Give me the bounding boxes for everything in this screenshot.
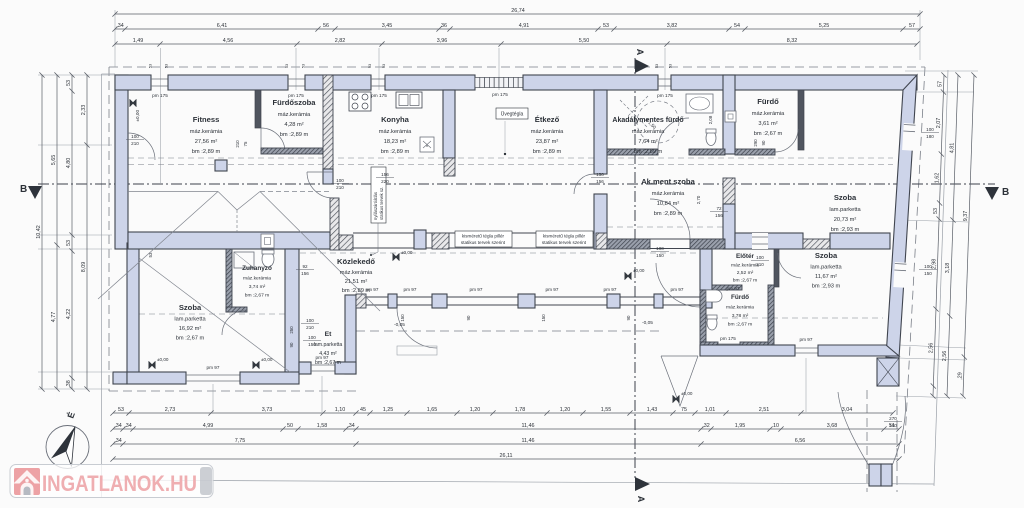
room label Étkező — [531, 115, 564, 155]
svg-text:250: 250 — [289, 326, 294, 334]
Zuhanyzo west wall — [226, 249, 232, 312]
svg-text:pm 97: pm 97 — [365, 287, 378, 292]
svg-text:1,20: 1,20 — [470, 407, 481, 413]
svg-text:75: 75 — [681, 407, 687, 413]
north arrow compass — [46, 411, 89, 469]
door arc corridor/Eloter — [656, 263, 700, 307]
room label Fitness — [190, 115, 223, 155]
svg-text:1,78: 1,78 — [515, 407, 526, 413]
svg-text:máz.kerámia: máz.kerámia — [278, 112, 311, 118]
svg-text:2,82: 2,82 — [335, 38, 346, 44]
svg-text:220: 220 — [381, 179, 389, 184]
window pm175 #3 sill — [371, 79, 385, 86]
svg-text:16,92 m²: 16,92 m² — [179, 326, 202, 332]
hatched pillar Eloter — [803, 239, 830, 249]
svg-text:2,33: 2,33 — [81, 105, 87, 116]
uvegtegla leader — [504, 121, 506, 152]
kitchen west hatched pillar — [323, 75, 333, 169]
bottom dim row 1 — [110, 407, 895, 415]
boiler box on wall — [261, 234, 274, 248]
grab bar dashes — [620, 96, 648, 128]
sink — [396, 92, 422, 108]
svg-text:53: 53 — [655, 64, 659, 68]
svg-text:bm :2,89 m: bm :2,89 m — [192, 149, 221, 155]
west exterior wall — [115, 75, 128, 249]
svg-text:4,77: 4,77 — [51, 312, 57, 323]
svg-text:2,51: 2,51 — [759, 407, 770, 413]
svg-text:A: A — [635, 49, 645, 56]
svg-text:1,58: 1,58 — [317, 423, 328, 429]
svg-text:100: 100 — [306, 318, 314, 323]
Furdo washbasin — [706, 290, 722, 302]
svg-text:±0,00: ±0,00 — [401, 250, 413, 255]
west wall lower (Szoba) — [127, 243, 139, 382]
right dim chain outer — [958, 72, 977, 398]
right dim chain inner — [929, 72, 947, 398]
svg-text:11,67 m²: 11,67 m² — [815, 274, 837, 280]
window gap — [752, 233, 768, 249]
svg-text:4,22: 4,22 — [66, 309, 72, 320]
watermark INGATLANOK.HU — [10, 465, 213, 498]
room label Előtér — [731, 253, 759, 284]
svg-text:1,95: 1,95 — [735, 423, 746, 429]
svg-text:2,52 m²: 2,52 m² — [737, 270, 754, 276]
svg-text:3,96: 3,96 — [437, 38, 448, 44]
svg-text:Szoba: Szoba — [179, 303, 202, 312]
north wall segment 4 — [385, 75, 475, 90]
witness lines — [38, 10, 978, 412]
svg-text:bm :2,89 m: bm :2,89 m — [381, 149, 410, 155]
interior dashed lintel lines — [128, 158, 893, 318]
svg-text:53: 53 — [148, 252, 153, 257]
svg-text:bm :2,89 m: bm :2,89 m — [654, 211, 683, 217]
uvegtegla box — [496, 108, 528, 119]
svg-text:Étkező: Étkező — [535, 115, 560, 124]
svg-text:45: 45 — [360, 407, 366, 413]
svg-text:pm 97: pm 97 — [403, 287, 416, 292]
Szoba BL east wall — [285, 249, 299, 374]
svg-text:53: 53 — [669, 64, 673, 68]
svg-text:53: 53 — [285, 64, 289, 68]
svg-text:-0,05: -0,05 — [642, 320, 653, 326]
svg-text:23,87 m²: 23,87 m² — [536, 139, 559, 145]
svg-text:x: x — [426, 143, 428, 148]
corridor band lines e — [607, 239, 725, 249]
svg-text:5,65: 5,65 — [51, 155, 57, 166]
svg-text:150: 150 — [541, 314, 546, 322]
svg-text:1,25: 1,25 — [383, 407, 394, 413]
gate posts — [869, 464, 881, 486]
svg-text:53: 53 — [603, 23, 609, 29]
svg-text:máz.kerámia: máz.kerámia — [726, 305, 754, 311]
svg-text:210: 210 — [756, 262, 764, 267]
svg-text:máz.kerámia: máz.kerámia — [531, 129, 564, 135]
svg-text:10,42: 10,42 — [36, 225, 42, 239]
SW corner pilaster — [113, 372, 127, 384]
svg-text:1,49: 1,49 — [133, 38, 144, 44]
svg-text:3,45: 3,45 — [382, 23, 393, 29]
site boundary lines — [102, 70, 949, 497]
svg-text:50: 50 — [287, 423, 293, 429]
svg-text:4,28 m²: 4,28 m² — [284, 122, 303, 128]
svg-text:4,99: 4,99 — [203, 423, 214, 429]
Zuhanyzo shower tray — [234, 252, 254, 268]
Et south wall e — [335, 362, 356, 374]
left dim chain 3 — [66, 72, 75, 391]
svg-text:máz.kerámia: máz.kerámia — [243, 276, 271, 282]
room label Zuhanyzó — [242, 265, 272, 299]
svg-text:150: 150 — [308, 342, 316, 347]
svg-text:Akadálymentes fürdő: Akadálymentes fürdő — [612, 117, 683, 124]
svg-text:pm 97: pm 97 — [603, 287, 616, 292]
svg-text:bm :2,67 m: bm :2,67 m — [728, 322, 752, 328]
svg-text:2,70: 2,70 — [696, 195, 701, 204]
svg-text:,34: ,34 — [114, 423, 122, 429]
east wall window #2 — [893, 262, 906, 288]
hatched on pillar — [596, 233, 607, 249]
svg-text:90: 90 — [626, 315, 631, 320]
left dim chain outer — [36, 72, 45, 391]
svg-text:Szoba: Szoba — [834, 193, 857, 202]
svg-text:B: B — [1002, 187, 1009, 198]
window pm175 #1 sill — [151, 79, 168, 86]
svg-text:pm 175: pm 175 — [371, 93, 387, 98]
RB south wall — [700, 345, 795, 356]
svg-text:Fürdőszoba: Fürdőszoba — [272, 98, 316, 107]
svg-text:3,61 m²: 3,61 m² — [758, 121, 777, 127]
Furdo B window pm175 — [718, 344, 740, 347]
svg-text:bm :2,67 m: bm :2,67 m — [733, 278, 757, 284]
Furdo B south wall — [700, 342, 718, 348]
svg-text:10,84 m²: 10,84 m² — [657, 201, 680, 207]
svg-text:72: 72 — [716, 206, 722, 211]
svg-text:1,01: 1,01 — [705, 407, 716, 413]
section line A — [635, 49, 650, 503]
RB south window sill — [795, 348, 818, 353]
svg-text:53: 53 — [933, 208, 939, 214]
svg-text:180: 180 — [926, 134, 934, 139]
door arc Etkezo/Akment — [574, 174, 594, 194]
svg-text:290: 290 — [753, 139, 758, 147]
svg-text:bm :2,67 m: bm :2,67 m — [754, 131, 783, 137]
door arc Eloter/Szoba — [778, 253, 801, 278]
wall Akfurdo east — [723, 75, 735, 154]
Furdo B west wall — [700, 290, 706, 342]
svg-text:2,08: 2,08 — [708, 115, 713, 124]
svg-text:pm 175: pm 175 — [152, 93, 168, 98]
svg-text:56: 56 — [323, 23, 329, 29]
svg-text:kisméretű tégla pillér: kisméretű tégla pillér — [543, 234, 586, 239]
gate swing arcs — [838, 392, 906, 466]
Furdo B north wall — [712, 285, 742, 290]
svg-text:4,56: 4,56 — [223, 38, 234, 44]
room label Et — [314, 331, 343, 366]
svg-text:,34: ,34 — [124, 423, 132, 429]
bottom dim row 3 — [110, 438, 901, 446]
Akment szoba south wall w — [607, 239, 650, 249]
svg-text:pm 97: pm 97 — [469, 287, 482, 292]
svg-text:3,18: 3,18 — [945, 263, 951, 274]
svg-text:bm :2,89 m: bm :2,89 m — [280, 132, 309, 138]
svg-text:2,73: 2,73 — [165, 407, 176, 413]
corridor south band lines — [353, 233, 594, 248]
svg-text:5,25: 5,25 — [819, 23, 830, 29]
north wall segment 1 — [115, 75, 151, 90]
svg-text:B: B — [20, 184, 27, 195]
svg-text:10: 10 — [773, 423, 779, 429]
svg-text:53: 53 — [66, 240, 72, 246]
svg-text:100: 100 — [756, 255, 764, 260]
Szoba BL south wall e — [240, 372, 299, 384]
wall piece below — [723, 204, 735, 249]
svg-text:3,04: 3,04 — [842, 407, 853, 413]
bathtub — [686, 94, 713, 113]
svg-text:3,74 m²: 3,74 m² — [249, 284, 266, 290]
Akment szoba south wall e — [690, 239, 725, 249]
Eloter north wall — [735, 233, 803, 249]
svg-text:150: 150 — [656, 253, 664, 258]
Furdo B south wall e — [740, 342, 768, 348]
bottom dim row 4 — [110, 453, 901, 461]
svg-text:máz.kerámia: máz.kerámia — [632, 129, 665, 135]
door arc Zuhanyzo — [222, 310, 247, 335]
svg-text:,38: ,38 — [66, 380, 72, 388]
Furdo B east wall — [768, 285, 774, 347]
Et window sill — [311, 365, 335, 371]
svg-text:máz.kerámia: máz.kerámia — [731, 263, 759, 269]
door arc Akfurdo — [658, 118, 689, 149]
bottom dim row 2 — [110, 423, 901, 431]
brick pillar note box — [536, 231, 593, 247]
svg-text:51: 51 — [889, 423, 895, 429]
room label Szoba — [174, 303, 206, 342]
svg-text:Konyha: Konyha — [381, 115, 410, 124]
svg-text:pm 175: pm 175 — [288, 93, 304, 98]
svg-text:máz.kerámia: máz.kerámia — [340, 270, 373, 276]
svg-text:±0,00: ±0,00 — [633, 268, 645, 273]
svg-text:100: 100 — [656, 246, 664, 251]
corridor pillar lav — [414, 230, 426, 249]
svg-text:pm 97: pm 97 — [545, 287, 558, 292]
svg-text:100: 100 — [926, 127, 934, 132]
svg-text:53: 53 — [149, 64, 153, 68]
svg-text:máz.kerámia: máz.kerámia — [379, 129, 412, 135]
corridor pillar hatched — [432, 233, 449, 249]
svg-text:pm 175: pm 175 — [720, 336, 736, 341]
room label Akadálymentes fürdő — [612, 117, 683, 155]
vertical note box — [371, 167, 386, 223]
svg-text:INGATLANOK.HU: INGATLANOK.HU — [42, 471, 197, 496]
top dim row 2 — [112, 23, 922, 31]
svg-text:100: 100 — [131, 134, 139, 139]
left dim chain 2 — [51, 72, 60, 391]
room label Fürdő — [752, 97, 785, 137]
svg-text:pm 97: pm 97 — [315, 355, 328, 360]
svg-text:máz.kerámia: máz.kerámia — [190, 129, 223, 135]
svg-text:1,65: 1,65 — [427, 407, 438, 413]
svg-text:lam.parketta: lam.parketta — [314, 342, 343, 348]
svg-text:bm :2,89 m: bm :2,89 m — [533, 149, 562, 155]
svg-text:156: 156 — [301, 271, 309, 276]
window pm175 #2 sill — [288, 79, 305, 86]
svg-text:21,51 m²: 21,51 m² — [345, 279, 368, 285]
room label Szoba — [829, 193, 861, 233]
west door arc — [128, 133, 155, 160]
veranda post 4 — [518, 294, 535, 308]
veranda post 5 — [607, 294, 620, 308]
svg-text:Ak.ment szoba: Ak.ment szoba — [641, 177, 695, 186]
Et east wall — [345, 295, 356, 374]
Szoba TR south wall — [830, 233, 890, 249]
svg-text:statikus tervek szerint: statikus tervek szerint — [542, 240, 587, 245]
svg-text:6,41: 6,41 — [217, 23, 228, 29]
svg-text:7,64 m²: 7,64 m² — [638, 139, 657, 145]
kitchen west wall piece — [323, 169, 333, 184]
corridor hatched pillar w — [330, 198, 339, 250]
washer box — [420, 137, 434, 152]
svg-text:26,74: 26,74 — [511, 8, 525, 14]
svg-text:90: 90 — [289, 342, 294, 347]
svg-text:bm :2,67 m: bm :2,67 m — [245, 293, 269, 299]
svg-text:100: 100 — [336, 178, 344, 183]
svg-text:3,78 m²: 3,78 m² — [732, 313, 749, 319]
wall Fitness/Furdoszoba — [255, 90, 261, 128]
north wall segment 5 — [523, 75, 658, 90]
east wall window #1 — [902, 123, 915, 151]
roof valley zigzag — [98, 192, 380, 373]
svg-text:8,09: 8,09 — [81, 262, 87, 273]
svg-text:11,46: 11,46 — [521, 423, 534, 429]
wheelchair circle — [637, 101, 679, 143]
svg-text:150: 150 — [924, 271, 932, 276]
svg-text:11,46: 11,46 — [521, 438, 534, 444]
svg-text:3,68: 3,68 — [827, 423, 838, 429]
svg-text:3,73: 3,73 — [262, 407, 273, 413]
Furdoszoba south wall — [261, 148, 323, 154]
svg-text:5,50: 5,50 — [579, 38, 590, 44]
brick pillar note box — [455, 231, 512, 247]
toilet akfurdo — [706, 131, 716, 146]
svg-text:57: 57 — [938, 81, 944, 87]
svg-text:kisméretű tégla pillér: kisméretű tégla pillér — [462, 234, 505, 239]
veranda post 7 — [700, 294, 712, 308]
svg-text:57: 57 — [909, 23, 915, 29]
veranda post 6 — [654, 294, 663, 308]
svg-text:bm :2,93 m: bm :2,93 m — [831, 227, 860, 233]
Akfurdo south wall e — [689, 149, 725, 155]
RB west wall — [700, 249, 712, 290]
svg-text:bm :2,67 m: bm :2,67 m — [315, 360, 341, 366]
door arc kitchen — [307, 172, 333, 198]
svg-text:4,81: 4,81 — [949, 143, 955, 154]
svg-text:53: 53 — [382, 64, 386, 68]
svg-text:statikus tervek szerint: statikus tervek szerint — [461, 240, 506, 245]
room label Fürdőszoba — [272, 98, 316, 138]
svg-text:270: 270 — [889, 416, 897, 421]
svg-text:±0,00: ±0,00 — [157, 357, 169, 362]
porch gable — [661, 356, 698, 406]
top dim row 3 — [112, 38, 919, 46]
svg-text:Fürdő: Fürdő — [757, 97, 779, 106]
svg-text:statikus tervek sz.: statikus tervek sz. — [379, 187, 384, 220]
Szoba BL window sill — [186, 375, 240, 381]
door arc Furdo top — [775, 129, 798, 152]
svg-text:18,23 m²: 18,23 m² — [384, 139, 407, 145]
wall Eloter/Szoba — [774, 249, 779, 287]
svg-text:1,20: 1,20 — [560, 407, 571, 413]
stove — [349, 92, 371, 111]
svg-text:4,91: 4,91 — [519, 23, 530, 29]
svg-text:Fitness: Fitness — [193, 115, 220, 124]
Et south wall — [299, 362, 311, 374]
svg-text:Szoba: Szoba — [815, 251, 838, 260]
section line B — [20, 184, 1009, 200]
Furdo top south wall — [735, 149, 775, 155]
svg-text:,34: ,34 — [114, 438, 122, 444]
level marks — [393, 250, 413, 261]
svg-text:92: 92 — [302, 264, 308, 269]
svg-text:210: 210 — [235, 140, 240, 148]
svg-text:90: 90 — [466, 315, 471, 320]
svg-text:210: 210 — [306, 325, 314, 330]
svg-text:53: 53 — [368, 64, 372, 68]
top dim row 1 total — [112, 8, 922, 16]
Furdo toilet — [707, 316, 717, 330]
svg-text:pm 97: pm 97 — [799, 337, 812, 342]
veranda post 3 — [432, 294, 447, 308]
svg-text:156: 156 — [715, 213, 723, 218]
svg-text:pm 175: pm 175 — [657, 93, 673, 98]
svg-text:lam.parketta: lam.parketta — [174, 317, 206, 323]
veranda door arc — [397, 308, 437, 348]
fitness small pillar — [215, 160, 227, 171]
svg-text:26,11: 26,11 — [499, 453, 512, 459]
wall Konyha/Etkezo — [443, 90, 455, 158]
hatched block — [339, 235, 353, 250]
east exterior wall (slanted) — [886, 75, 917, 358]
svg-text:A: A — [636, 496, 646, 503]
fraction dims — [126, 134, 144, 146]
svg-text:7,75: 7,75 — [235, 438, 246, 444]
svg-text:±0,00: ±0,00 — [681, 391, 693, 396]
svg-text:8,32: 8,32 — [787, 38, 798, 44]
svg-text:pm 175: pm 175 — [492, 92, 508, 97]
gate pillar SE — [877, 358, 899, 386]
svg-text:Zuhanyzó: Zuhanyzó — [242, 265, 272, 272]
north wall segment 6 — [671, 75, 917, 90]
roof overhang dashed outline — [109, 67, 925, 492]
Zuhanyzo south wall — [226, 307, 247, 312]
svg-text:pm 97: pm 97 — [726, 286, 739, 291]
window pm175 #4 sill — [658, 79, 671, 86]
svg-text:53: 53 — [118, 407, 124, 413]
svg-text:bm :2,67 m: bm :2,67 m — [176, 336, 205, 342]
wall Etkezo east upper — [594, 90, 607, 174]
svg-text:2,56: 2,56 — [929, 343, 935, 354]
svg-text:100: 100 — [308, 335, 316, 340]
Akfurdo south wall w — [607, 149, 658, 155]
svg-text:90: 90 — [761, 140, 766, 145]
veranda post 1 — [356, 294, 366, 308]
svg-text:1,55: 1,55 — [601, 407, 612, 413]
svg-text:Et: Et — [325, 331, 333, 338]
room label Ak.ment szoba — [641, 177, 695, 217]
svg-text:2,56: 2,56 — [942, 351, 948, 362]
svg-text:4,80: 4,80 — [66, 158, 72, 169]
svg-text:20,73 m²: 20,73 m² — [834, 217, 857, 223]
room label Szoba — [810, 251, 842, 290]
svg-text:pm 97: pm 97 — [206, 365, 219, 370]
